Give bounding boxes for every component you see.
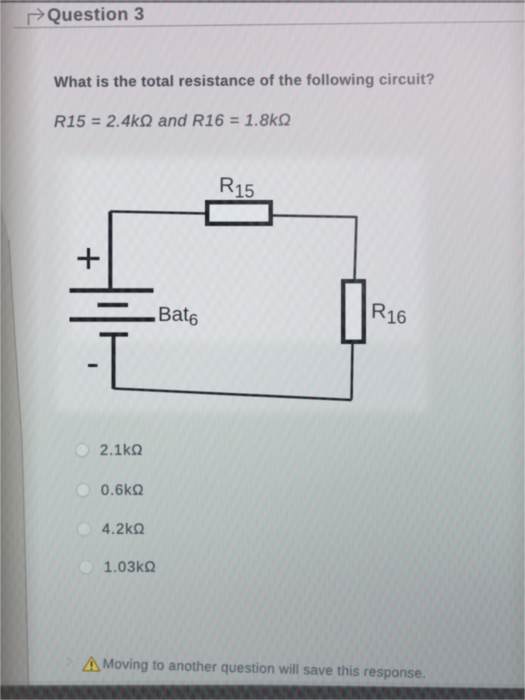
resistor R15: [207, 202, 271, 224]
wire: top-left corner to R15: [110, 212, 207, 214]
wire: R15 to top-right corner: [272, 216, 357, 218]
battery Bat6 long plate (lower): [70, 317, 156, 322]
battery Bat6 short plate (middle): [98, 303, 129, 307]
answer option 4: [79, 557, 379, 577]
header elbow arrow icon: [29, 9, 44, 25]
battery Bat6 long plate (top): [70, 288, 154, 293]
warning message: [103, 656, 427, 681]
figure background box: [56, 155, 428, 412]
wire: right side down to R16: [355, 216, 357, 281]
question text: [54, 71, 435, 91]
wire: bottom run back to battery: [114, 389, 352, 401]
answer option 1: [75, 440, 375, 460]
answer option 3: [77, 519, 377, 539]
answer option 2: [76, 480, 376, 500]
top dark strip: [0, 0, 525, 3]
resistor R16: [343, 281, 364, 342]
battery Bat6 short plate (bottom): [100, 332, 129, 336]
header underline: [13, 21, 525, 27]
header text: Question 3: [47, 3, 145, 25]
battery Bat6 positive terminal wire: [108, 212, 112, 291]
plus sign: [78, 248, 100, 269]
left content-edge boundary line: [9, 240, 29, 687]
left margin shading: [0, 200, 29, 687]
warning triangle icon: [83, 657, 100, 671]
formula line: [54, 111, 291, 132]
minus sign: [88, 364, 98, 367]
faint chevron near warning: [67, 658, 74, 666]
battery Bat6 negative terminal wire: [112, 335, 116, 390]
wire: R16 to bottom-right corner: [352, 342, 353, 400]
